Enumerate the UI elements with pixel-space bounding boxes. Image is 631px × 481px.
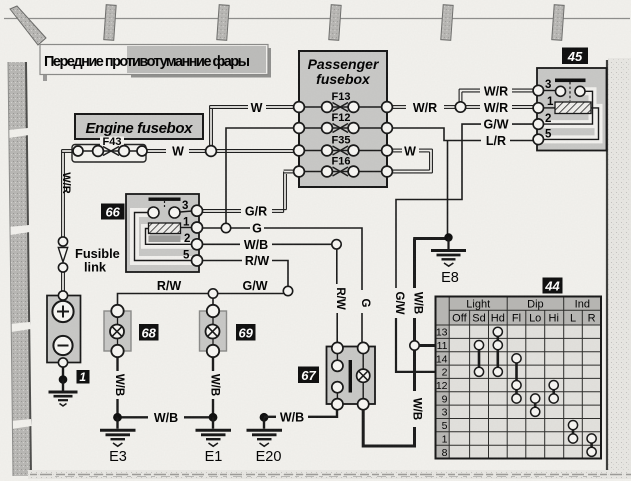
fuse F12 — [294, 112, 393, 133]
Engine fusebox label box — [75, 114, 203, 139]
switch contacts column Sd — [474, 341, 483, 377]
fuse F35 — [294, 135, 393, 156]
wire W/B vertical upper — [413, 239, 446, 392]
junction connector on W wire — [206, 146, 217, 157]
switch table 44 grid — [436, 297, 602, 459]
connector on W/B to R/W wire — [332, 240, 341, 249]
relay 45 terminal 1 — [533, 103, 543, 113]
switch 44 ref label — [543, 278, 563, 294]
wire G row from relay 66 terminal 1 — [203, 228, 362, 290]
switch contacts column R — [587, 434, 596, 457]
title box gray right part — [127, 46, 266, 73]
fog lamp 69 — [200, 305, 227, 357]
binder tab 4 — [441, 5, 453, 41]
relay 67 ref label — [298, 367, 319, 384]
fog lamp 68 — [104, 305, 131, 357]
wire W loop F35 to F16 (double line) — [392, 149, 432, 173]
fusible link text — [75, 246, 120, 275]
relay 66 — [126, 194, 199, 272]
junction connector on G row — [221, 223, 230, 232]
left border vertical strip — [8, 62, 31, 476]
relay 45 terminal 3 — [533, 85, 543, 95]
wire W engine to junction (double line) — [147, 150, 299, 153]
junction dot E20 — [260, 413, 269, 422]
binder tab 1 — [104, 5, 116, 41]
fuse F43 outline box — [72, 145, 146, 163]
wire W/B from relay 66 terminal 2 — [203, 243, 337, 245]
relay 66 pin numbers — [182, 200, 190, 262]
bottom border rough edge line — [30, 474, 631, 476]
ground battery — [49, 380, 78, 407]
wire W/B from E20 to relay 67 — [264, 410, 337, 417]
switch contacts column Hd — [493, 327, 502, 376]
switch contacts column Hi — [549, 381, 558, 404]
battery 1 — [47, 291, 81, 367]
left border strip white notches — [8, 128, 32, 429]
Passenger fusebox box — [299, 51, 387, 187]
relay 45 terminal 5 — [533, 134, 543, 144]
wire W vertical up from junction (double line) — [210, 106, 299, 149]
wire W/R fusible link to battery (double line) — [62, 272, 65, 291]
wire G/R from relay 66 terminal 3 to fuse F16 (double line) — [203, 170, 294, 212]
ground E20 — [247, 417, 283, 446]
wire W/R branch up to terminal 3 (double line) — [459, 89, 533, 103]
terminal engine fusebox left — [73, 146, 83, 156]
connector lamp row to R/W riser — [283, 286, 292, 295]
relay 66 ref label — [101, 204, 125, 220]
relay 67 — [327, 342, 376, 409]
junction dot battery ground — [59, 375, 68, 384]
wire G lower segment to relay 67 — [361, 313, 363, 342]
switch contacts column Lo — [531, 394, 540, 417]
switch contacts column Fl — [512, 354, 521, 403]
left border short diagonal piece — [40, 45, 59, 67]
wire L/R row from fuse F12 to relay 45 terminal 5 — [392, 128, 534, 141]
left border strip right edge — [26, 62, 31, 476]
wire W/B relay 67 to bottom loop — [363, 410, 414, 446]
terminal engine fusebox right — [137, 146, 147, 156]
right border edge line — [606, 60, 608, 474]
wire G/W lower segment into switch table row 2 — [396, 318, 436, 372]
relay 45 terminal 2 — [533, 119, 543, 129]
junction connector on W/R wire — [455, 102, 465, 112]
binder tab 2 — [217, 5, 229, 41]
title box shadow — [131, 48, 271, 78]
wire G/W from relay 45 terminal 2 — [396, 124, 534, 288]
relay 66 terminal 2 — [192, 239, 203, 250]
battery ref label 1 — [77, 370, 90, 384]
fuse F16 — [294, 156, 393, 177]
relay 66 terminal 3 — [192, 205, 203, 216]
left border torn-paper diagonal strip — [10, 6, 46, 45]
junction dot E3 — [113, 413, 122, 422]
relay 45 — [537, 68, 607, 151]
junction dot E1 — [209, 413, 218, 422]
switch table 44 header texts — [452, 299, 595, 325]
left border small tick — [43, 68, 47, 81]
switch table 44 outer border — [436, 297, 602, 459]
wire W/R from F13 to relay 45 (double line) — [392, 106, 534, 109]
binder tab 3 — [329, 5, 341, 41]
lamp 68 ref label — [139, 324, 159, 341]
relay 45 ref label — [562, 48, 588, 65]
wire drop to ground E8 — [447, 141, 449, 235]
right border margin speckle — [608, 58, 631, 478]
lamp 69 ref label — [236, 324, 256, 341]
wire lamp feed row — [118, 294, 284, 306]
wire W/B junction into switch table row 11 — [419, 344, 436, 347]
wire W/B lamp 68 down — [116, 357, 118, 414]
bottom border torn-paper band — [28, 470, 631, 479]
title box — [40, 45, 268, 75]
wire R/W vertical down to relay 67 — [336, 249, 338, 342]
ground E1 — [196, 417, 232, 446]
wire W/R from engine fusebox (double line) — [62, 150, 73, 241]
switch contacts column L — [568, 421, 577, 444]
switch table 44 background — [436, 297, 602, 459]
switch table 44 row numbers — [436, 327, 448, 459]
wire W/B between grounds E3 and E1 — [118, 416, 214, 418]
fusible link symbol — [58, 237, 67, 272]
junction connector W/B to switch row 11 — [410, 341, 419, 350]
wire W/B lamp 69 down — [212, 357, 214, 414]
relay 66 terminal 5 — [192, 255, 203, 266]
fuse F43 symbol — [93, 146, 130, 157]
junction dot E8 — [444, 233, 452, 241]
wire engine fusebox row — [78, 150, 142, 152]
ground E3 — [100, 417, 136, 446]
connector above lamp 69 — [208, 289, 217, 298]
left border strip left edge — [8, 62, 13, 476]
relay 66 terminal 1 — [192, 222, 203, 233]
binder tab 5 — [552, 5, 564, 41]
ground E8 — [431, 238, 466, 267]
fuse F13 — [294, 91, 393, 112]
wire R/W from relay 66 terminal 5 — [203, 261, 288, 287]
wire battery to ground dot — [62, 367, 64, 379]
relay 45 pin numbers — [545, 79, 554, 141]
fuse F43 value label — [100, 137, 124, 147]
wire G from fuse F12 down to node G — [226, 128, 294, 224]
page top edge line — [4, 18, 630, 20]
